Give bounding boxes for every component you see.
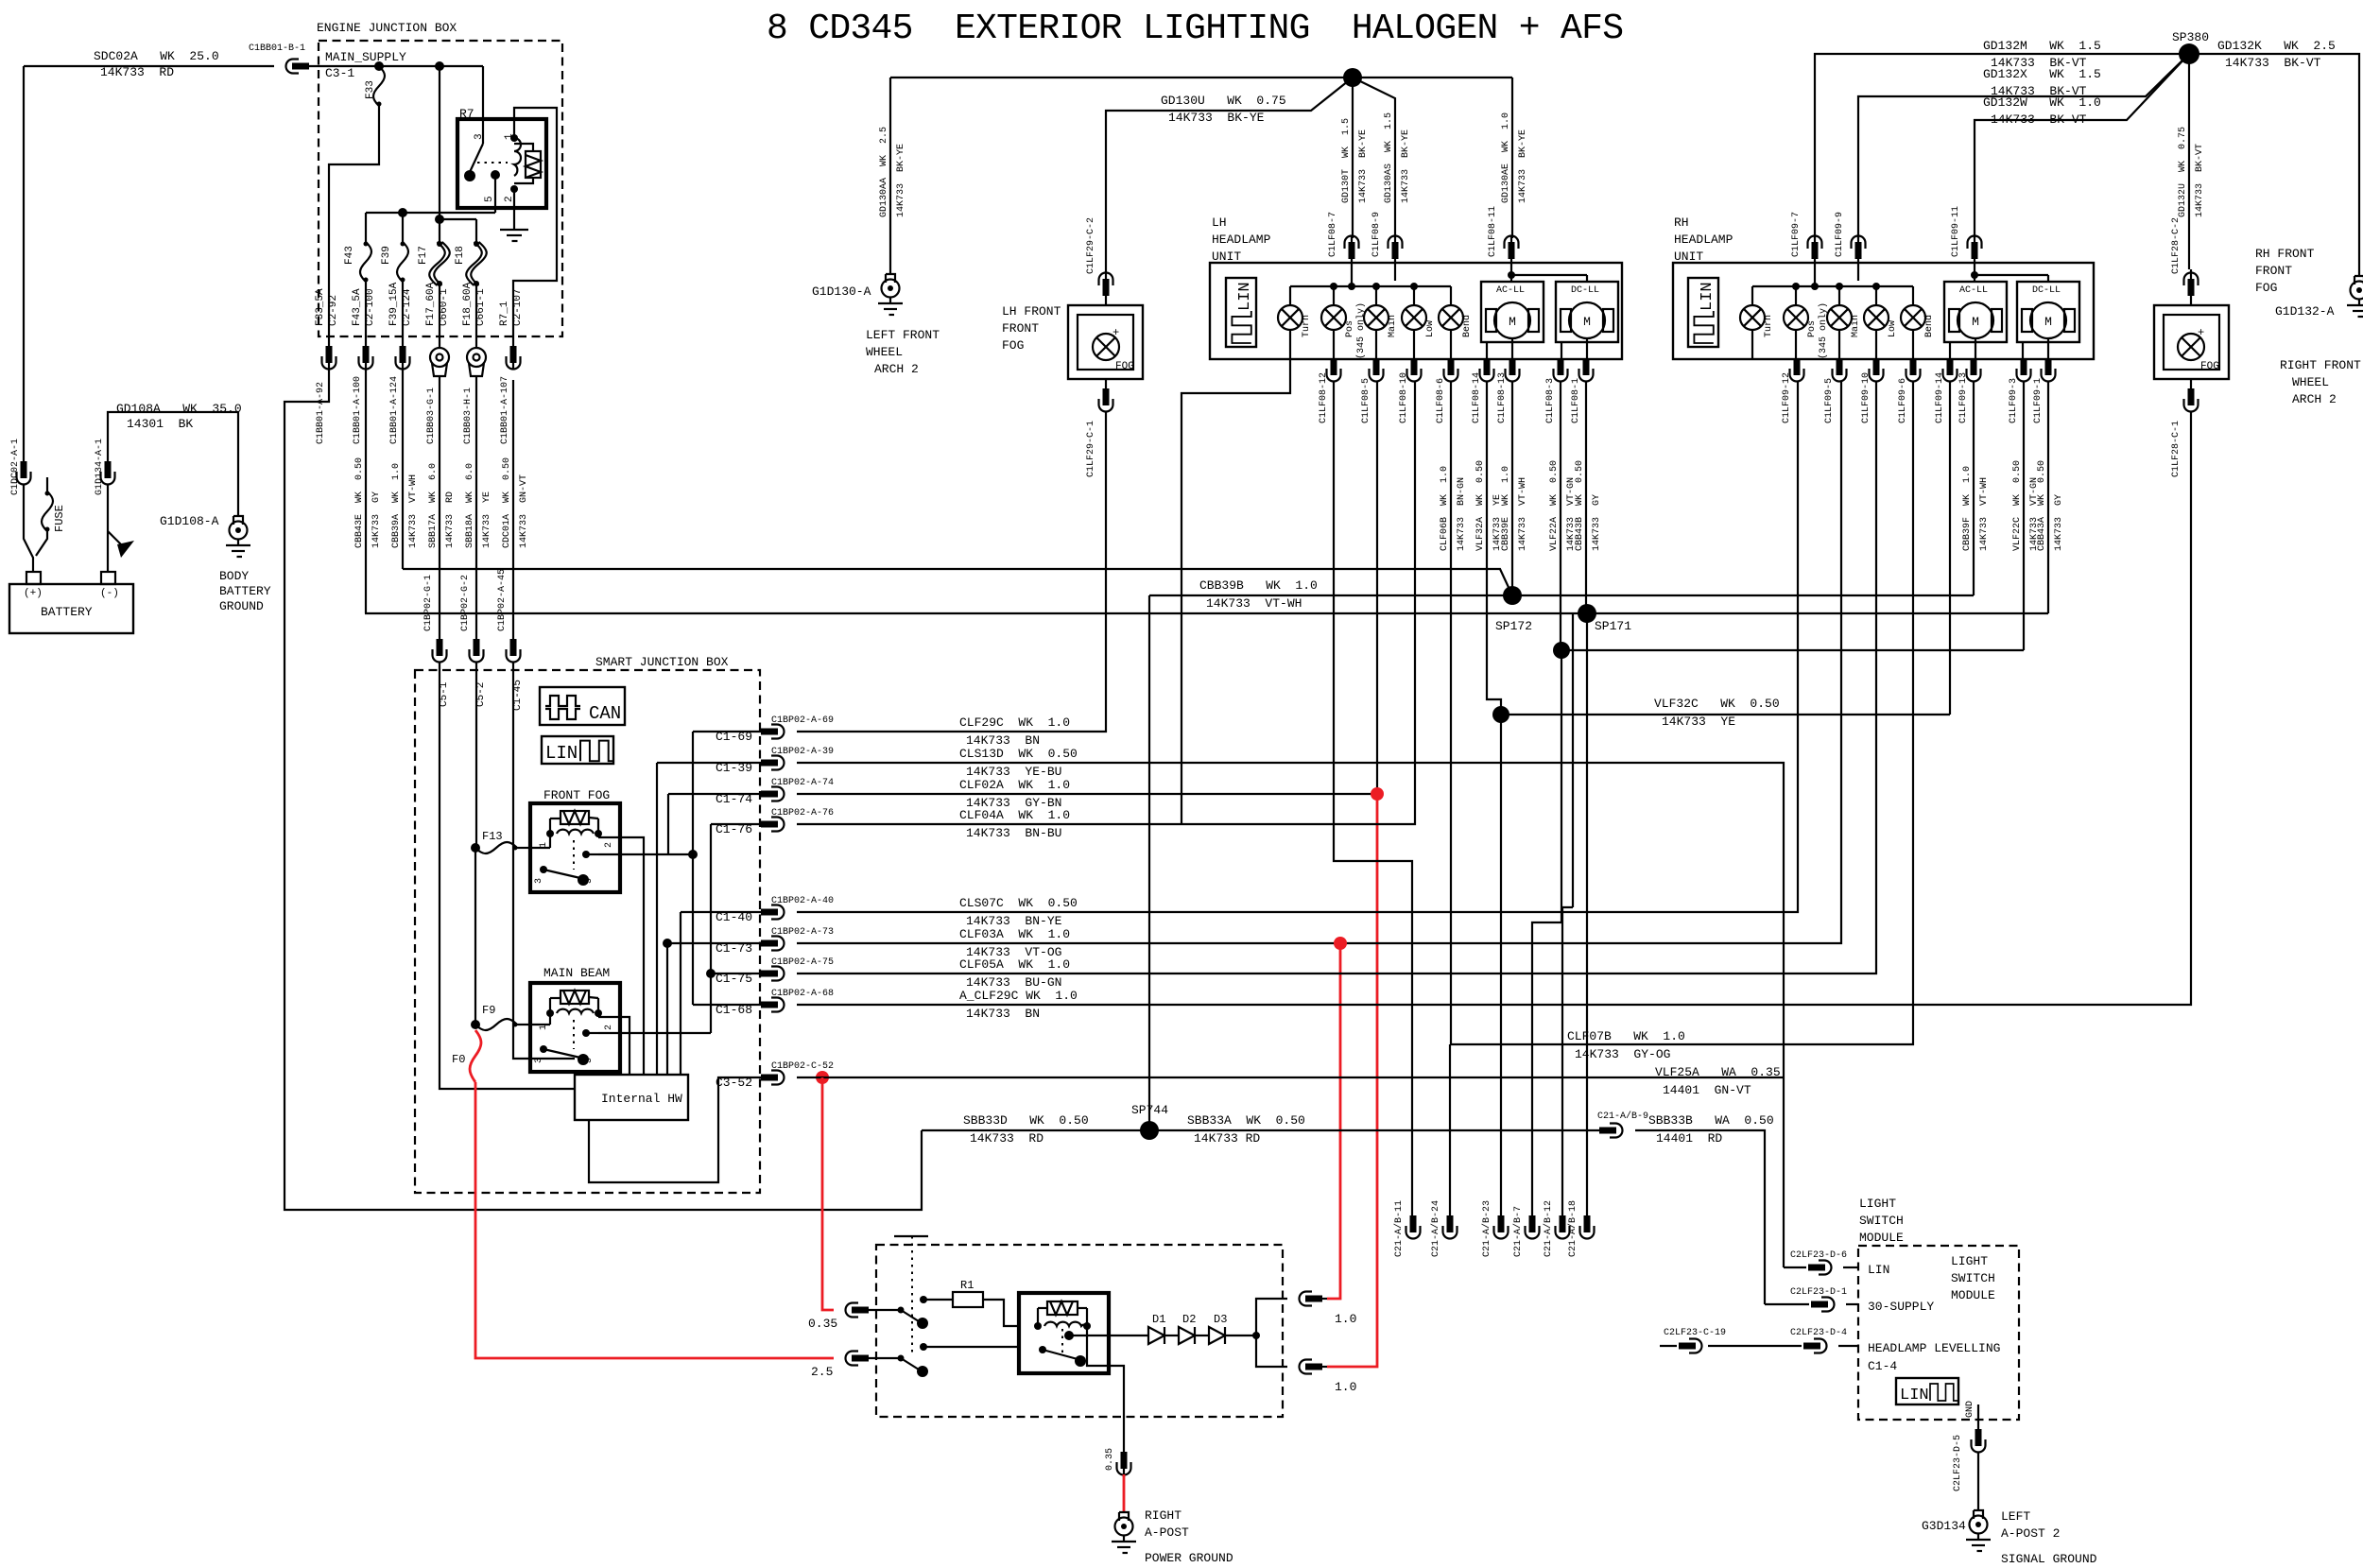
- svg-text:C2-92: C2-92: [328, 295, 339, 326]
- connector 1.0 lower output: [1300, 1360, 1323, 1374]
- wire C5-2 feed inside SJB: [475, 670, 477, 847]
- svg-text:1.0: 1.0: [1335, 1380, 1356, 1394]
- svg-text:VLF22C WK 0.50: VLF22C WK 0.50: [2012, 460, 2023, 551]
- RH headlamp unit box: [1673, 263, 2094, 359]
- svg-text:C2-124: C2-124: [402, 288, 413, 326]
- svg-text:C1LF09-13: C1LF09-13: [1958, 372, 1969, 423]
- svg-text:14K733 BK-YE: 14K733 BK-YE: [896, 144, 906, 217]
- svg-text:F13: F13: [482, 830, 503, 843]
- svg-text:C1-68: C1-68: [716, 1003, 752, 1017]
- wire CBB43B to C21-A/B-18: [1586, 613, 1588, 1215]
- svg-text:CBB39F WK 1.0: CBB39F WK 1.0: [1962, 466, 1973, 551]
- svg-text:Low: Low: [1425, 320, 1436, 337]
- svg-text:CBB43B WK 0.50: CBB43B WK 0.50: [1575, 460, 1585, 551]
- RH bulb Main: [1838, 286, 1840, 305]
- svg-text:M: M: [1583, 315, 1591, 329]
- wire F33 output to C2-92: [329, 106, 379, 336]
- svg-text:SP380: SP380: [2172, 30, 2209, 44]
- svg-text:C1LF09-9: C1LF09-9: [1835, 212, 1845, 257]
- svg-text:C661-1: C661-1: [475, 288, 487, 326]
- svg-text:C1LF08-13: C1LF08-13: [1497, 372, 1508, 423]
- svg-text:14K733 BN-GN: 14K733 BN-GN: [1457, 477, 1467, 551]
- svg-text:14K733 BN-YE: 14K733 BN-YE: [966, 914, 1062, 928]
- svg-text:LIGHT: LIGHT: [1859, 1197, 1896, 1211]
- wire CLF06B to C21-A/B-24: [1450, 381, 1452, 1044]
- svg-text:CLF29C WK 1.0: CLF29C WK 1.0: [959, 715, 1070, 730]
- connector C1LF09-12: [1790, 358, 1804, 382]
- connector C21-A/B-7: [1526, 1215, 1540, 1239]
- svg-text:SIGNAL GROUND: SIGNAL GROUND: [2001, 1552, 2097, 1566]
- wire CBB43B riser: [1585, 381, 1587, 613]
- svg-text:LIN: LIN: [545, 743, 578, 764]
- svg-text:D1: D1: [1152, 1313, 1165, 1326]
- red tap on CLF03A: [1334, 937, 1347, 950]
- svg-text:SBB18A WK 6.0: SBB18A WK 6.0: [465, 463, 475, 548]
- svg-text:2: 2: [604, 1025, 614, 1030]
- svg-text:C1LF08-9: C1LF08-9: [1371, 212, 1382, 257]
- wire battery plus to SDC02A: [23, 66, 25, 473]
- svg-text:SBB33A WK 0.50: SBB33A WK 0.50: [1187, 1113, 1305, 1128]
- svg-text:FOG: FOG: [1115, 361, 1134, 372]
- svg-text:CBB43E WK 0.50: CBB43E WK 0.50: [354, 457, 365, 548]
- wire C1-76 C1-75 link: [710, 824, 712, 1033]
- connector C1LF09-1: [2042, 358, 2056, 382]
- svg-text:C1LF29-C-1: C1LF29-C-1: [1086, 421, 1096, 477]
- wire A_CLF29C to RH front fog: [797, 422, 2191, 1005]
- wire CBB39E riser: [1511, 381, 1513, 595]
- assembly relay resistor: [1047, 1301, 1078, 1315]
- svg-text:C21-A/B-11: C21-A/B-11: [1393, 1200, 1405, 1257]
- connector 0.35 input: [846, 1303, 870, 1318]
- SJB pin C1-69 connector C1BP02-A-69: [693, 731, 771, 732]
- svg-text:BATTERY: BATTERY: [41, 605, 93, 619]
- connector C1LF09-5: [1833, 358, 1847, 382]
- svg-text:VLF32A WK 0.50: VLF32A WK 0.50: [1475, 460, 1486, 551]
- wire CLS13D branch to C21-A/B-11: [1334, 381, 1412, 1215]
- svg-text:D3: D3: [1214, 1313, 1227, 1326]
- svg-text:C21-A/B-7: C21-A/B-7: [1512, 1206, 1524, 1257]
- svg-text:F43_5A: F43_5A: [352, 288, 363, 326]
- svg-text:C1BP02-A-68: C1BP02-A-68: [771, 989, 834, 999]
- connector C21-A/B-18: [1580, 1215, 1595, 1239]
- svg-text:14K733 BN: 14K733 BN: [966, 733, 1040, 748]
- svg-text:FRONT FOG: FRONT FOG: [543, 788, 610, 802]
- svg-text:CLS13D WK 0.50: CLS13D WK 0.50: [959, 747, 1078, 761]
- wire C1-74 stub: [667, 794, 669, 854]
- relay FRONT FOG switch: [540, 866, 547, 873]
- wire F17 feed rail: [440, 218, 476, 220]
- svg-text:LIN: LIN: [1699, 282, 1716, 311]
- svg-text:14K733 BK-YE: 14K733 BK-YE: [1358, 129, 1369, 203]
- svg-text:G3D134: G3D134: [1922, 1519, 1966, 1533]
- svg-text:Bend: Bend: [1461, 315, 1473, 337]
- svg-text:M: M: [1972, 315, 1979, 329]
- svg-text:C1BP02-G-1: C1BP02-G-1: [423, 575, 434, 631]
- svg-text:(+): (+): [24, 588, 43, 599]
- LH DC-LL actuator: [1556, 282, 1618, 342]
- wire switch2 to relay: [920, 1343, 927, 1351]
- svg-text:SP172: SP172: [1495, 619, 1532, 633]
- svg-text:5: 5: [484, 196, 495, 202]
- connector C1LF08-3: [1554, 358, 1568, 382]
- relay R7 resistor: [526, 151, 541, 178]
- svg-text:Pos: Pos: [1345, 320, 1355, 337]
- connector C2LF23-D-5: [1972, 1429, 1986, 1453]
- svg-text:14K733 YE: 14K733 YE: [482, 491, 492, 548]
- svg-text:RH FRONT: RH FRONT: [2255, 247, 2315, 261]
- svg-text:C1BB01-A-92: C1BB01-A-92: [316, 382, 326, 444]
- svg-text:DC-LL: DC-LL: [1571, 285, 1599, 296]
- svg-text:CLF03A WK 1.0: CLF03A WK 1.0: [959, 927, 1070, 941]
- wire red F0 to bottom connector: [475, 1082, 834, 1358]
- svg-text:G1D132-A: G1D132-A: [2275, 304, 2335, 319]
- svg-text:14K733 RD: 14K733 RD: [1194, 1131, 1260, 1146]
- svg-text:C1BB03-G-1: C1BB03-G-1: [426, 388, 437, 444]
- svg-text:+: +: [2198, 326, 2204, 339]
- svg-text:14K733 BN: 14K733 BN: [966, 1007, 1040, 1021]
- RH levelling feed: [1974, 263, 1975, 275]
- wire C5-1 feed inside SJB: [440, 670, 575, 1089]
- svg-text:C1-40: C1-40: [716, 910, 752, 924]
- wire R7 pin1 loop to C2-107: [513, 108, 557, 336]
- wire F33 5A branch SBB33 to bottom: [285, 369, 922, 1210]
- connector assembly ground pin: [1117, 1452, 1131, 1475]
- RH LIN symbol: [1688, 278, 1718, 347]
- svg-text:Turn: Turn: [1764, 315, 1774, 337]
- svg-text:A-POST: A-POST: [1145, 1525, 1189, 1540]
- internal HW box: [575, 1075, 688, 1120]
- svg-text:F33_5A: F33_5A: [315, 288, 326, 326]
- svg-text:CLF02A WK 1.0: CLF02A WK 1.0: [959, 778, 1070, 792]
- svg-text:GD130AA WK 2.5: GD130AA WK 2.5: [879, 127, 889, 217]
- RH bulb Low: [1875, 286, 1877, 305]
- svg-text:ARCH 2: ARCH 2: [2292, 392, 2337, 406]
- svg-text:CBB43A WK 0.50: CBB43A WK 0.50: [2037, 460, 2047, 551]
- svg-text:14K733 VT-WH: 14K733 VT-WH: [1206, 596, 1302, 611]
- chassis arrow at battery minus: [108, 531, 123, 546]
- wire internal hw to C3-52: [589, 1077, 771, 1182]
- svg-text:A_CLF29C WK 1.0: A_CLF29C WK 1.0: [959, 989, 1078, 1003]
- svg-text:R1: R1: [960, 1279, 974, 1292]
- svg-text:14K733 GY: 14K733 GY: [2054, 494, 2064, 551]
- connector C1LF08-6: [1444, 358, 1458, 382]
- svg-text:C21-A/B-24: C21-A/B-24: [1430, 1200, 1441, 1257]
- ground right a-post power ground: [1112, 1512, 1136, 1553]
- LH bulb feed rail: [1290, 285, 1451, 287]
- svg-text:1.0: 1.0: [1335, 1312, 1356, 1326]
- svg-text:Low: Low: [1888, 320, 1898, 337]
- svg-text:C1BP02-A-74: C1BP02-A-74: [771, 778, 834, 788]
- wire switch1 to R1: [920, 1296, 927, 1303]
- svg-text:0.35: 0.35: [808, 1317, 837, 1331]
- svg-text:(345 only): (345 only): [1818, 302, 1829, 359]
- svg-text:C1LF09-12: C1LF09-12: [1782, 372, 1792, 423]
- svg-text:C1-69: C1-69: [716, 730, 752, 744]
- svg-text:SDC02A WK 25.0: SDC02A WK 25.0: [94, 49, 219, 63]
- RH bulb Turn: [1751, 286, 1753, 305]
- svg-text:DC-LL: DC-LL: [2032, 285, 2061, 296]
- svg-text:RIGHT FRONT: RIGHT FRONT: [2280, 358, 2361, 372]
- connector C1LF08-1: [1579, 358, 1594, 382]
- wire diode output node: [1225, 1335, 1256, 1336]
- svg-text:C1LF09-5: C1LF09-5: [1824, 378, 1835, 423]
- svg-text:C1LF08-12: C1LF08-12: [1319, 372, 1329, 423]
- svg-text:2.5: 2.5: [811, 1365, 833, 1379]
- svg-text:Bend: Bend: [1923, 315, 1935, 337]
- relay FRONT FOG resistor: [561, 811, 589, 824]
- svg-text:2: 2: [604, 842, 614, 848]
- module LIN symbol: [1896, 1378, 1958, 1404]
- svg-text:CLS07C WK 0.50: CLS07C WK 0.50: [959, 896, 1078, 910]
- LH bulb Pos: [1333, 286, 1335, 305]
- svg-text:MAIN BEAM: MAIN BEAM: [543, 966, 610, 980]
- wire internal hw stubs: [588, 1072, 590, 1075]
- wire FRONT FOG pin2 to internal hw: [598, 837, 644, 1075]
- ground bar above assembly: [894, 1235, 928, 1237]
- svg-text:C1LF29-C-2: C1LF29-C-2: [1086, 217, 1096, 274]
- svg-text:CBB39E WK 1.0: CBB39E WK 1.0: [1501, 466, 1511, 551]
- connector C1LF09-3: [2017, 358, 2031, 382]
- svg-text:BATTERY: BATTERY: [219, 584, 271, 598]
- svg-text:(-): (-): [100, 588, 119, 599]
- svg-text:CBB39A WK 1.0: CBB39A WK 1.0: [391, 463, 402, 548]
- svg-text:14K733 BK-YE: 14K733 BK-YE: [1401, 129, 1411, 203]
- svg-text:F39_15A: F39_15A: [388, 282, 400, 326]
- svg-text:CLF06B WK 1.0: CLF06B WK 1.0: [1440, 466, 1450, 551]
- svg-text:F17_60A: F17_60A: [425, 282, 437, 326]
- svg-text:UNIT: UNIT: [1674, 250, 1703, 264]
- svg-text:C1LF08-1: C1LF08-1: [1571, 378, 1581, 423]
- wire CLF04A to LH headlamp low: [797, 381, 1415, 824]
- RH AC-LL actuator: [1944, 282, 2007, 342]
- svg-text:M: M: [2044, 315, 2052, 329]
- svg-text:AC-LL: AC-LL: [1959, 285, 1988, 296]
- wire relay output through diodes: [1109, 1335, 1148, 1336]
- LH headlamp unit box: [1210, 263, 1622, 359]
- svg-text:C1LF09-7: C1LF09-7: [1791, 212, 1802, 257]
- LIN symbol: [542, 736, 613, 764]
- svg-text:Pos: Pos: [1807, 320, 1818, 337]
- svg-text:C1LF08-14: C1LF08-14: [1472, 372, 1482, 423]
- svg-text:GD130AS WK 1.5: GD130AS WK 1.5: [1384, 112, 1394, 203]
- wire CLF02A to LH headlamp main: [797, 381, 1377, 794]
- wire FRONT FOG pin5 out: [598, 853, 693, 855]
- svg-text:GD130U WK 0.75: GD130U WK 0.75: [1161, 94, 1286, 108]
- red wire to right a-post ground: [1123, 1474, 1126, 1512]
- svg-text:GD130T WK 1.5: GD130T WK 1.5: [1341, 118, 1352, 203]
- svg-text:3: 3: [534, 878, 544, 884]
- svg-text:C1LF08-10: C1LF08-10: [1399, 372, 1409, 423]
- svg-text:C3-52: C3-52: [716, 1076, 752, 1090]
- svg-text:C21-A/B-12: C21-A/B-12: [1543, 1200, 1554, 1257]
- svg-text:GD132K WK 2.5: GD132K WK 2.5: [2217, 39, 2336, 53]
- svg-text:14K733 BU-GN: 14K733 BU-GN: [966, 975, 1061, 990]
- svg-text:SWITCH: SWITCH: [1951, 1271, 1995, 1285]
- svg-text:14401 RD: 14401 RD: [1656, 1131, 1722, 1146]
- connector C1LF08-13: [1506, 358, 1520, 382]
- red wire C3-52 to light switch: [822, 1077, 834, 1310]
- svg-text:C1BP02-A-40: C1BP02-A-40: [771, 896, 834, 906]
- svg-text:ARCH 2: ARCH 2: [874, 362, 919, 376]
- svg-text:HEADLAMP: HEADLAMP: [1212, 233, 1271, 247]
- svg-text:Turn: Turn: [1302, 315, 1312, 337]
- svg-text:R7_1: R7_1: [499, 301, 510, 326]
- wire VLF22A to C21-A/B-7: [1532, 650, 1561, 1215]
- svg-text:(345 only): (345 only): [1355, 302, 1367, 359]
- svg-text:C1-4: C1-4: [1868, 1359, 1897, 1373]
- connector 2.5 input: [846, 1352, 870, 1366]
- svg-text:GD130AE WK 1.0: GD130AE WK 1.0: [1501, 112, 1511, 203]
- svg-text:C2-100: C2-100: [365, 288, 376, 326]
- connector C1BB01-B-1: [286, 60, 310, 74]
- svg-text:CDC01A WK 0.50: CDC01A WK 0.50: [502, 457, 512, 548]
- svg-text:UNIT: UNIT: [1212, 250, 1241, 264]
- svg-text:GD132M WK 1.5: GD132M WK 1.5: [1983, 39, 2101, 53]
- svg-text:C1LF09-3: C1LF09-3: [2009, 378, 2019, 423]
- svg-text:14K733 GY: 14K733 GY: [1592, 494, 1602, 551]
- svg-text:F9: F9: [482, 1004, 495, 1017]
- wire to output 1.0 upper: [1256, 1299, 1287, 1335]
- svg-text:C1LF09-6: C1LF09-6: [1898, 378, 1908, 423]
- wire MAIN BEAM pin2 to internal hw: [598, 1017, 630, 1075]
- svg-text:M: M: [1509, 315, 1516, 329]
- svg-text:LEFT FRONT: LEFT FRONT: [866, 328, 940, 342]
- svg-text:LH: LH: [1212, 215, 1227, 230]
- svg-text:FOG: FOG: [1002, 338, 1024, 353]
- wire VLF32C to C21-A/B-23: [1500, 715, 1502, 1215]
- svg-text:RIGHT: RIGHT: [1145, 1508, 1181, 1523]
- svg-text:CBB39B WK 1.0: CBB39B WK 1.0: [1199, 578, 1318, 593]
- connector C1LF08-10: [1407, 358, 1422, 382]
- wire R7 pin2 to ground: [513, 189, 515, 230]
- LH AC-LL actuator: [1481, 282, 1544, 342]
- svg-text:C1LF09-10: C1LF09-10: [1861, 372, 1871, 423]
- connector C1LF09-10: [1870, 358, 1884, 382]
- LH bulb Main: [1375, 286, 1377, 305]
- svg-text:C21-A/B-9: C21-A/B-9: [1597, 1111, 1648, 1122]
- svg-text:VLF22A WK 0.50: VLF22A WK 0.50: [1549, 460, 1560, 551]
- svg-text:D2: D2: [1182, 1313, 1196, 1326]
- svg-text:LIN: LIN: [1236, 282, 1254, 311]
- svg-text:C1LF28-C-2: C1LF28-C-2: [2171, 217, 2182, 274]
- wire to C21-A/B-12: [1572, 613, 1574, 907]
- svg-text:CLF05A WK 1.0: CLF05A WK 1.0: [959, 957, 1070, 972]
- light switch module enclosure: [1858, 1246, 2019, 1420]
- svg-text:14K733 YE-BU: 14K733 YE-BU: [966, 765, 1061, 779]
- switch blade 1: [898, 1307, 905, 1314]
- svg-text:POWER GROUND: POWER GROUND: [1145, 1551, 1233, 1565]
- svg-text:C2LF23-C-19: C2LF23-C-19: [1664, 1328, 1726, 1338]
- svg-text:14K733 GN-VT: 14K733 GN-VT: [519, 474, 529, 548]
- svg-text:LIN: LIN: [1868, 1263, 1889, 1277]
- wire CBB39B branch to SP744: [1148, 595, 1150, 1130]
- svg-text:GD132W WK 1.0: GD132W WK 1.0: [1983, 95, 2101, 110]
- svg-text:14K733 BK-VT: 14K733 BK-VT: [2195, 144, 2205, 217]
- wire CLF29C to LH front fog: [797, 416, 1106, 732]
- svg-text:SWITCH: SWITCH: [1859, 1214, 1904, 1228]
- LH bulb Bend: [1450, 286, 1452, 305]
- wire main supply rail: [319, 65, 483, 67]
- SJB pin C3-52 connector C1BP02-C-52: [761, 1071, 785, 1085]
- connector C21-A/B-12: [1556, 1215, 1570, 1239]
- fuse rail from R7 pin5: [494, 208, 496, 213]
- svg-text:C1LF28-C-1: C1LF28-C-1: [2171, 421, 2182, 477]
- svg-text:14K733 BK-YE: 14K733 BK-YE: [1518, 129, 1528, 203]
- svg-text:C2LF23-D-1: C2LF23-D-1: [1790, 1287, 1847, 1298]
- svg-text:14K733 YE: 14K733 YE: [1662, 715, 1735, 729]
- wire VLF22A link: [1553, 642, 1570, 659]
- relay in light switch assembly: [1019, 1293, 1109, 1373]
- svg-text:G1D130-A: G1D130-A: [812, 284, 871, 299]
- fuse FUSE inline at battery: [46, 477, 48, 491]
- svg-text:C21-A/B-23: C21-A/B-23: [1481, 1200, 1492, 1257]
- wire C1-69 C1-68 common from front fog: [692, 732, 694, 1005]
- svg-text:14K733 GY-OG: 14K733 GY-OG: [1575, 1047, 1670, 1061]
- wire relay bottom pin to ground connector: [1087, 1326, 1124, 1474]
- RH bulb Bend: [1912, 286, 1914, 305]
- CAN symbol: [540, 687, 625, 725]
- battery B1: [9, 584, 133, 633]
- svg-text:C1BB01-B-1: C1BB01-B-1: [249, 43, 305, 54]
- red tap on CLF02A: [1371, 787, 1384, 801]
- svg-text:GND: GND: [1965, 1401, 1975, 1418]
- svg-text:ENGINE JUNCTION BOX: ENGINE JUNCTION BOX: [317, 21, 457, 35]
- svg-text:C21-A/B-18: C21-A/B-18: [1567, 1200, 1578, 1257]
- svg-text:MODULE: MODULE: [1859, 1231, 1904, 1245]
- svg-text:F18: F18: [455, 246, 466, 265]
- svg-text:SBB17A WK 6.0: SBB17A WK 6.0: [428, 463, 439, 548]
- svg-text:Main: Main: [1850, 315, 1861, 337]
- svg-text:3: 3: [534, 1058, 544, 1063]
- svg-text:A-POST 2: A-POST 2: [2001, 1526, 2060, 1541]
- svg-text:WHEEL: WHEEL: [2292, 375, 2329, 389]
- svg-text:BODY: BODY: [219, 569, 249, 583]
- wire SDC02A main feed: [24, 65, 274, 67]
- svg-text:AC-LL: AC-LL: [1496, 285, 1525, 296]
- svg-text:C2-107: C2-107: [512, 288, 524, 326]
- svg-text:C1LF08-3: C1LF08-3: [1545, 378, 1556, 423]
- svg-text:MAIN_SUPPLY: MAIN_SUPPLY: [325, 50, 406, 64]
- svg-text:VLF32C WK 0.50: VLF32C WK 0.50: [1654, 697, 1780, 711]
- assembly relay coil: [1044, 1322, 1087, 1326]
- relay MAIN BEAM resistor: [561, 991, 589, 1004]
- svg-text:F33: F33: [365, 80, 376, 99]
- wire to relay R7 pin 3: [482, 66, 484, 119]
- connector C1LF08-5: [1370, 358, 1384, 382]
- svg-text:MODULE: MODULE: [1951, 1288, 1995, 1302]
- wire turn lamp branch: [1181, 359, 1290, 824]
- SJB pin C1-68 connector C1BP02-A-68: [693, 1004, 771, 1006]
- relay R7 coil: [514, 138, 521, 176]
- svg-text:C1-73: C1-73: [716, 941, 752, 956]
- svg-text:C1LF08-6: C1LF08-6: [1436, 378, 1446, 423]
- connector C21-A/B-9: [1599, 1124, 1623, 1138]
- svg-text:C1BB01-A-100: C1BB01-A-100: [353, 376, 363, 444]
- relay MAIN BEAM switch: [540, 1045, 547, 1053]
- wire CBB39A to SP172: [403, 569, 1512, 595]
- svg-text:LH FRONT: LH FRONT: [1002, 304, 1061, 319]
- svg-text:WHEEL: WHEEL: [866, 345, 903, 359]
- svg-text:SBB33D WK 0.50: SBB33D WK 0.50: [963, 1113, 1089, 1128]
- svg-text:C1BP02-A-75: C1BP02-A-75: [771, 957, 834, 968]
- connector C1LF09-14: [1943, 358, 1958, 382]
- svg-text:C1BB03-H-1: C1BB03-H-1: [463, 388, 474, 444]
- svg-text:CLF04A WK 1.0: CLF04A WK 1.0: [959, 808, 1070, 822]
- svg-text:14401 GN-VT: 14401 GN-VT: [1663, 1083, 1751, 1097]
- svg-text:C1BB01-A-107: C1BB01-A-107: [500, 376, 510, 444]
- svg-text:14K733 VT-WH: 14K733 VT-WH: [408, 474, 419, 548]
- svg-text:C3-1: C3-1: [325, 66, 354, 80]
